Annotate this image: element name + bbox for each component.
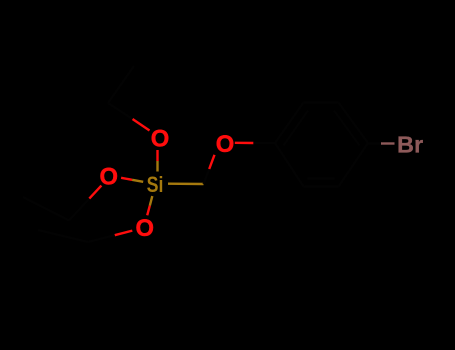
benzene ring bond C4-C5 — [339, 143, 369, 187]
wire Si-O_top bond (red half) — [156, 150, 158, 161]
wire O_top-CH2 ethyl bond (red half) — [133, 119, 150, 131]
benzene ring bond C1-C2 — [275, 103, 304, 144]
wire O_right-ring bond (carbon half) — [253, 142, 275, 144]
wire Si-O_bottom bond (Si half) — [150, 196, 153, 206]
svg-text:O: O — [99, 163, 118, 190]
wire O_bottom-CH2 ethyl bond (red half) — [115, 231, 133, 236]
benzene ring bond C2-C3 — [304, 101, 339, 103]
benzene ring bond C5-C6 — [304, 185, 339, 187]
wire Si-CH2 bond (gold) — [168, 182, 204, 185]
wire CH2-O_right bond (red half) — [209, 155, 214, 169]
benzene ring bond C3-C4 — [339, 103, 369, 144]
svg-text:O: O — [151, 125, 170, 152]
svg-text:O: O — [135, 215, 154, 242]
wire CH2-CH3 bottom ethyl bond — [38, 230, 88, 242]
svg-text:Br: Br — [397, 132, 423, 158]
wire O_left-CH2 ethyl bond (red half) — [89, 186, 101, 199]
benzene ring bond C1-C2 inner double — [284, 111, 309, 146]
svg-text:Si: Si — [147, 172, 164, 197]
wire O_left-CH2 ethyl bond (carbon half) — [69, 199, 89, 221]
wire Si-O_bottom bond (red half) — [147, 206, 150, 216]
benzene ring bond C5-C6 inner double — [308, 178, 335, 180]
wire O_top-CH2 ethyl bond (carbon half) — [108, 103, 133, 119]
wire ring-Br bond (carbon half) — [368, 142, 381, 144]
wire Si-O_left bond (red half) — [121, 178, 132, 180]
wire O_right-ring bond (red half) — [235, 142, 254, 145]
wire CH2-CH3 left ethyl bond — [23, 197, 69, 221]
benzene ring bond C3-C4 inner double — [334, 111, 360, 146]
benzene ring bond C6-C1 — [275, 143, 304, 187]
wire Si-O_top bond (Si half) — [156, 161, 158, 172]
wire CH2-CH3 top ethyl bond — [108, 66, 134, 103]
wire ring-Br bond (Br half) — [381, 142, 395, 144]
svg-text:O: O — [216, 131, 235, 158]
wire O_bottom-CH2 ethyl bond (carbon half) — [88, 235, 115, 242]
wire Si-O_left bond (Si half) — [132, 180, 143, 182]
wire CH2-O_right bond (carbon half) — [204, 169, 210, 184]
